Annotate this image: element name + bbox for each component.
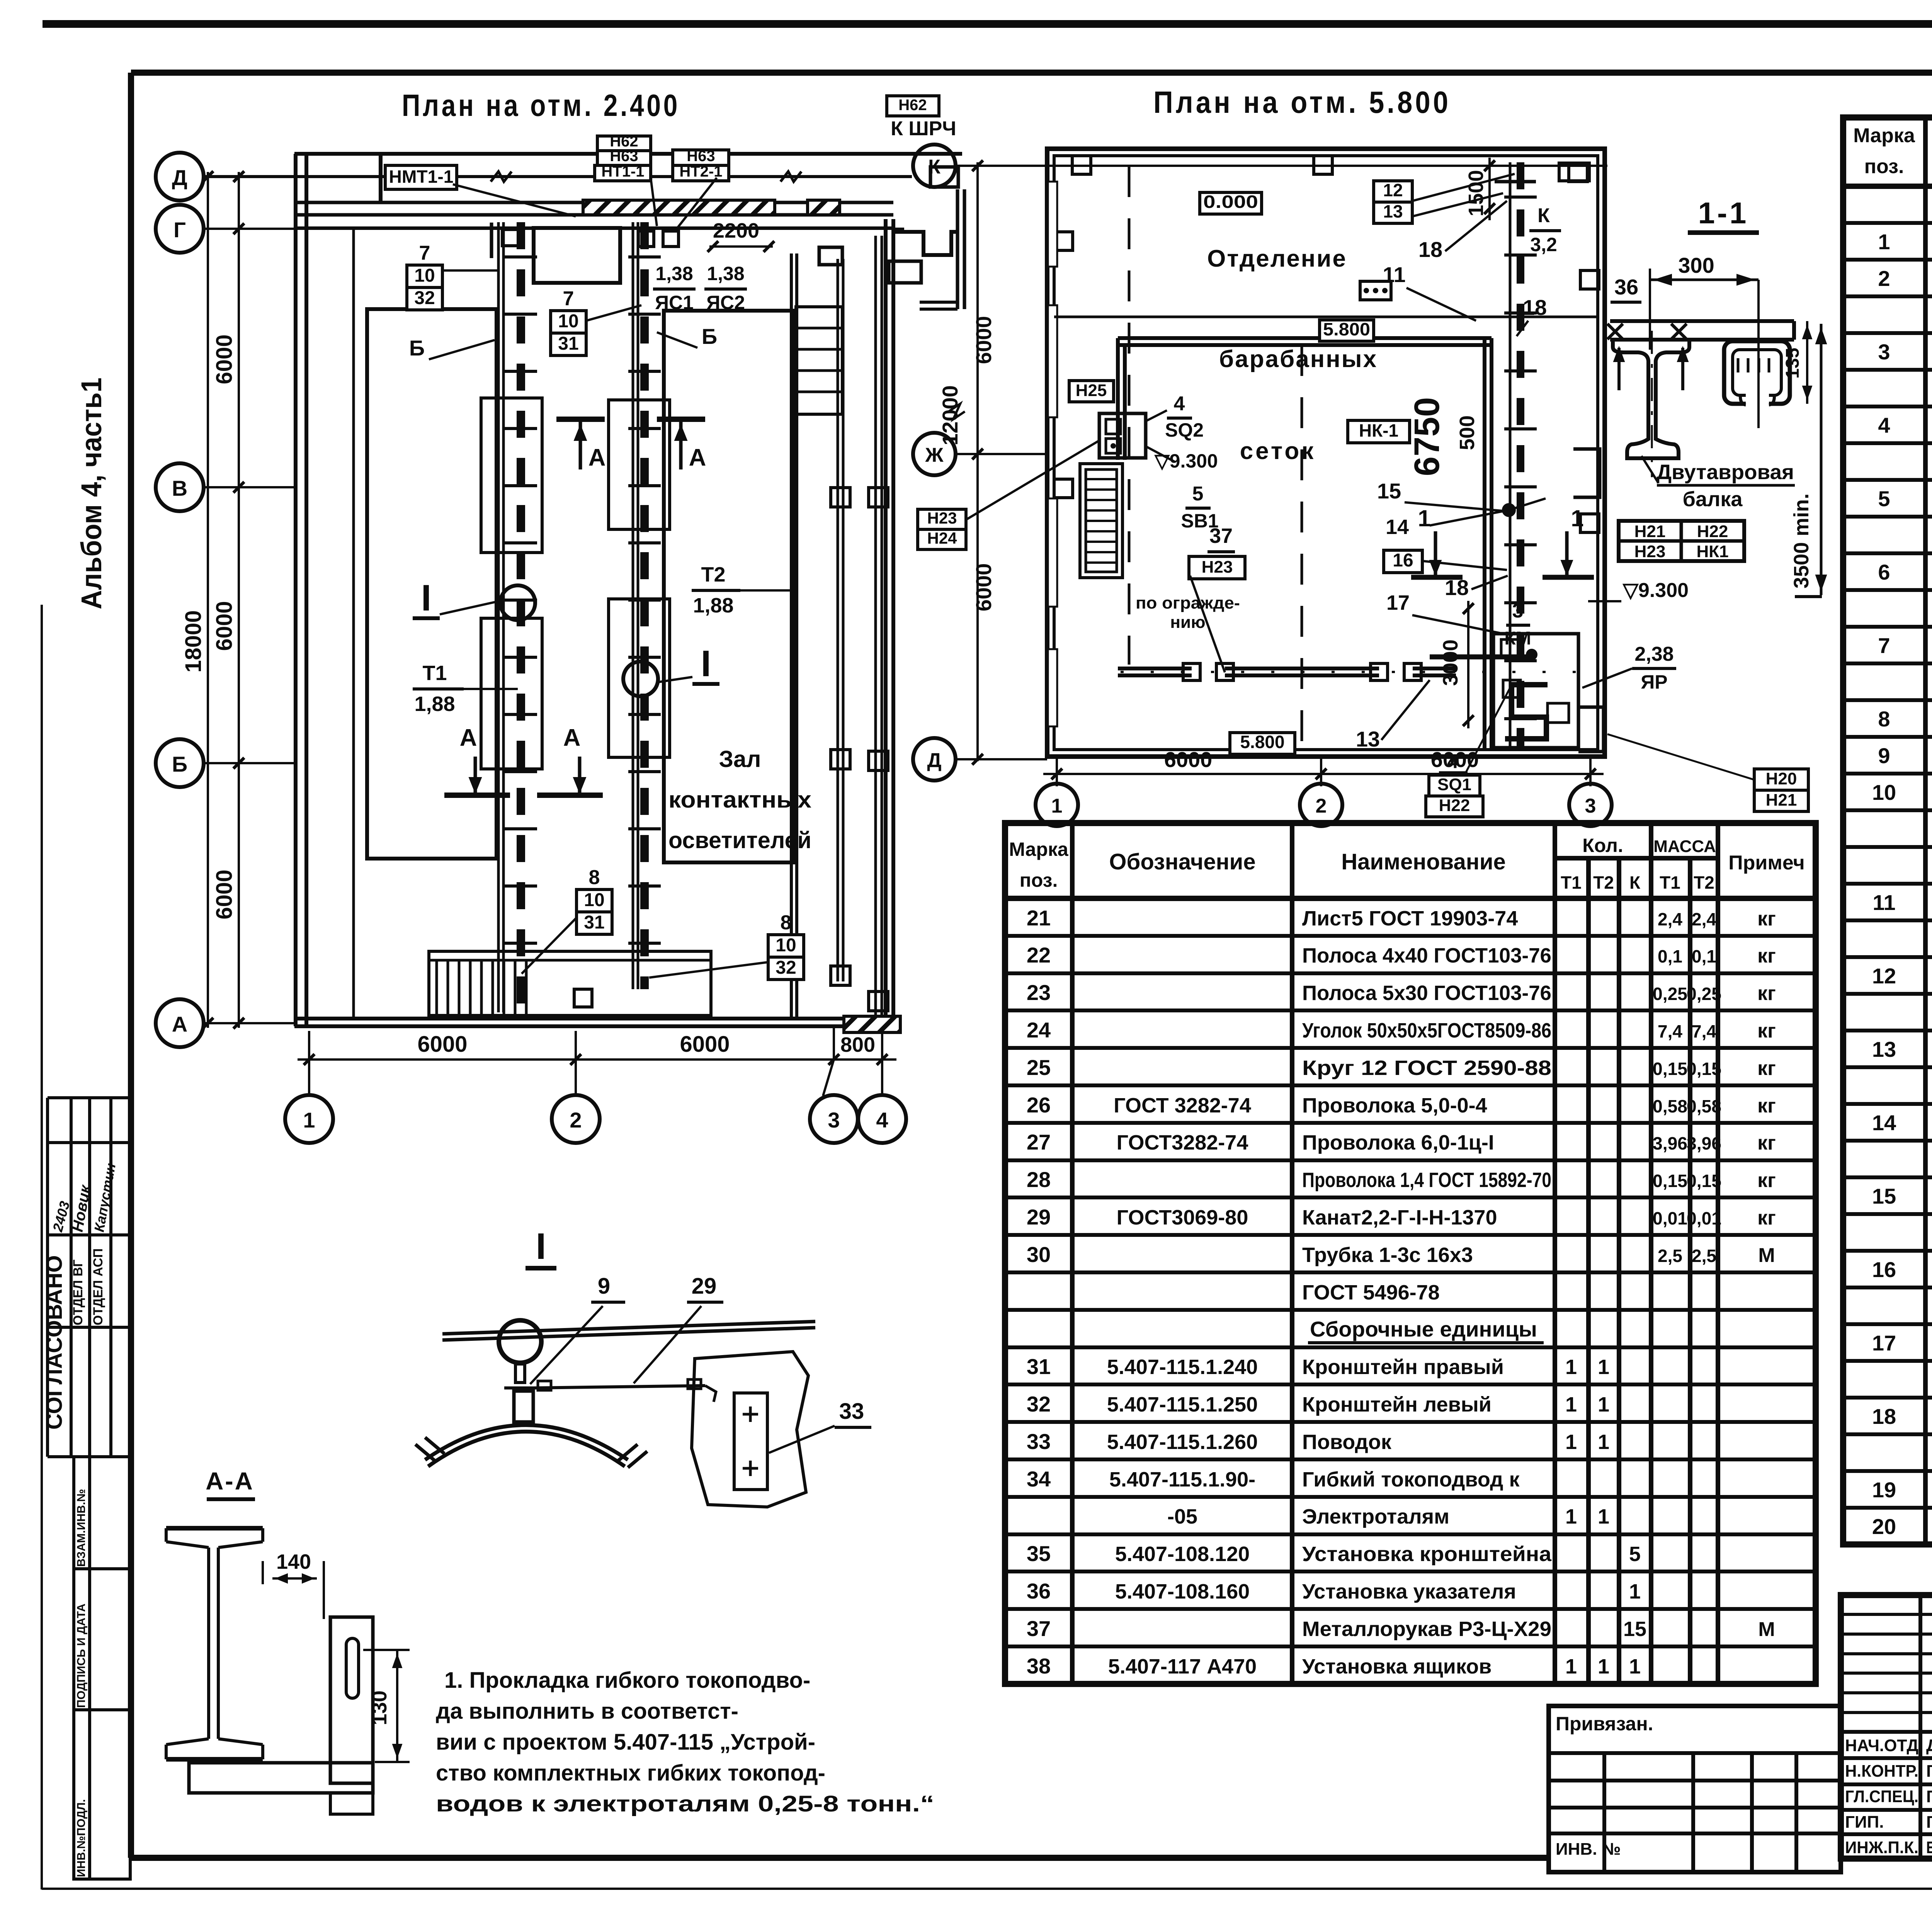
svg-text:0.000: 0.000	[1203, 192, 1258, 212]
svg-text:ДАНИЛОВ: ДАНИЛОВ	[1926, 1736, 1932, 1755]
svg-text:6000: 6000	[680, 1032, 730, 1057]
svg-text:ЯР: ЯР	[1641, 671, 1667, 693]
svg-text:-05: -05	[1167, 1505, 1197, 1528]
svg-text:34: 34	[1027, 1467, 1051, 1491]
svg-text:осветителей: осветителей	[668, 827, 811, 853]
svg-text:17: 17	[1386, 591, 1410, 614]
svg-text:А: А	[172, 1012, 187, 1036]
svg-text:1: 1	[1598, 1505, 1609, 1528]
svg-text:18000: 18000	[181, 610, 206, 672]
svg-text:2,38: 2,38	[1634, 643, 1673, 665]
svg-text:1,88: 1,88	[414, 692, 455, 716]
svg-text:15: 15	[1377, 479, 1401, 503]
svg-text:13: 13	[1872, 1037, 1896, 1061]
svg-text:А: А	[588, 444, 606, 471]
svg-text:15: 15	[1872, 1184, 1896, 1208]
svg-text:800: 800	[840, 1033, 875, 1056]
svg-text:контактных: контактных	[668, 787, 811, 813]
svg-text:Кол.: Кол.	[1582, 835, 1623, 856]
svg-text:6000: 6000	[212, 601, 237, 651]
svg-text:ОТДЕЛ АСП: ОТДЕЛ АСП	[91, 1248, 105, 1325]
svg-text:Двутавровая: Двутавровая	[1656, 461, 1794, 484]
svg-text:ВЗАМ.ИНВ.№: ВЗАМ.ИНВ.№	[75, 1489, 88, 1567]
svg-text:1: 1	[1565, 1355, 1577, 1379]
svg-text:33: 33	[1027, 1429, 1051, 1454]
svg-text:16: 16	[1393, 550, 1413, 571]
svg-text:ГИП.: ГИП.	[1845, 1813, 1884, 1832]
svg-text:18: 18	[1418, 237, 1442, 262]
svg-text:Б: Б	[172, 752, 187, 776]
svg-text:МАССА: МАССА	[1653, 837, 1716, 856]
svg-text:37: 37	[1209, 524, 1233, 548]
svg-text:вии с проектом 5.407-115 „Ус: вии с проектом 5.407-115 „Устрой-	[436, 1730, 815, 1755]
svg-text:Поводок: Поводок	[1302, 1430, 1392, 1454]
svg-text:5.407-108.120: 5.407-108.120	[1115, 1543, 1250, 1566]
svg-text:31: 31	[584, 912, 604, 933]
svg-text:М: М	[1758, 1244, 1775, 1267]
svg-text:23: 23	[1027, 980, 1051, 1005]
svg-text:2: 2	[1316, 795, 1327, 817]
svg-text:Н63: Н63	[687, 148, 715, 165]
svg-text:25: 25	[1027, 1055, 1051, 1080]
svg-text:▽9.300: ▽9.300	[1154, 450, 1218, 472]
svg-text:5.407-115.1.250: 5.407-115.1.250	[1107, 1393, 1258, 1416]
svg-text:НМТ1-1: НМТ1-1	[389, 167, 454, 187]
svg-text:130: 130	[368, 1690, 391, 1725]
svg-text:Н23: Н23	[1202, 558, 1233, 577]
svg-text:13: 13	[1356, 727, 1380, 751]
svg-text:Установка кронштейна: Установка кронштейна	[1302, 1543, 1552, 1566]
svg-text:Полоса 4х40 ГОСТ103-76: Полоса 4х40 ГОСТ103-76	[1302, 944, 1551, 967]
svg-text:13: 13	[1383, 201, 1403, 221]
svg-text:Т1: Т1	[1660, 872, 1680, 893]
svg-text:А: А	[460, 724, 477, 751]
svg-text:19: 19	[1872, 1478, 1896, 1502]
svg-text:кг: кг	[1757, 1207, 1776, 1229]
svg-text:Т2: Т2	[701, 563, 725, 586]
svg-text:4: 4	[1447, 750, 1459, 773]
svg-text:Сборочные единицы: Сборочные единицы	[1310, 1317, 1537, 1341]
svg-text:0,25: 0,25	[1687, 984, 1721, 1004]
svg-text:кг: кг	[1757, 945, 1776, 967]
svg-text:5: 5	[1878, 486, 1890, 511]
svg-text:ПОДПИСЬ И ДАТА: ПОДПИСЬ И ДАТА	[75, 1604, 88, 1708]
svg-text:0,58: 0,58	[1653, 1096, 1687, 1116]
svg-text:Обозначение: Обозначение	[1109, 849, 1255, 874]
svg-text:Примеч: Примеч	[1728, 852, 1804, 874]
svg-text:Проволока 6,0-1ц-I: Проволока 6,0-1ц-I	[1302, 1131, 1494, 1154]
svg-text:36: 36	[1614, 275, 1638, 299]
svg-text:1,38: 1,38	[707, 263, 744, 284]
svg-text:Н21: Н21	[1766, 791, 1797, 810]
svg-text:ГОСТ3282-74: ГОСТ3282-74	[1117, 1131, 1248, 1154]
svg-text:14: 14	[1872, 1111, 1896, 1135]
svg-text:1: 1	[1565, 1393, 1577, 1416]
svg-text:7: 7	[563, 287, 574, 310]
svg-text:0,01: 0,01	[1653, 1208, 1687, 1228]
svg-text:12: 12	[1872, 964, 1896, 988]
svg-text:ГУСЕВА: ГУСЕВА	[1926, 1813, 1932, 1832]
svg-text:НК1: НК1	[1696, 542, 1728, 561]
svg-text:11: 11	[1383, 262, 1405, 287]
svg-text:32: 32	[776, 957, 796, 978]
svg-text:Металлорукав Р3-Ц-Х29: Металлорукав Р3-Ц-Х29	[1302, 1617, 1551, 1641]
svg-text:поз.: поз.	[1864, 155, 1904, 178]
svg-text:10: 10	[414, 265, 435, 286]
svg-text:М: М	[1758, 1618, 1775, 1641]
svg-text:▽9.300: ▽9.300	[1622, 579, 1689, 602]
svg-text:3,2: 3,2	[1530, 234, 1557, 255]
svg-text:Кронштейн правый: Кронштейн правый	[1302, 1355, 1504, 1379]
svg-text:22: 22	[1027, 943, 1051, 967]
svg-text:Н63: Н63	[610, 148, 638, 165]
svg-text:кг: кг	[1757, 1169, 1776, 1192]
svg-text:сеток: сеток	[1240, 438, 1316, 464]
svg-text:ИНЖ.П.К.: ИНЖ.П.К.	[1845, 1838, 1918, 1857]
svg-text:ство комплектных гибких ток: ство комплектных гибких токопод-	[436, 1760, 825, 1786]
svg-text:3: 3	[1878, 340, 1890, 364]
svg-text:1,38: 1,38	[655, 263, 693, 284]
svg-text:ГОСТ 3282-74: ГОСТ 3282-74	[1114, 1094, 1251, 1117]
svg-text:1: 1	[1051, 795, 1063, 817]
svg-text:6000: 6000	[212, 869, 237, 919]
svg-text:5.800: 5.800	[1240, 732, 1284, 752]
svg-text:1: 1	[1598, 1393, 1609, 1416]
svg-text:24: 24	[1027, 1018, 1051, 1042]
svg-text:К: К	[928, 156, 940, 178]
svg-text:5.407-115.1.260: 5.407-115.1.260	[1107, 1430, 1258, 1454]
svg-text:7,4: 7,4	[1658, 1021, 1682, 1041]
svg-text:31: 31	[558, 333, 578, 354]
svg-text:ЕЛИЗАРОВА: ЕЛИЗАРОВА	[1926, 1838, 1932, 1857]
svg-text:3: 3	[1585, 795, 1596, 817]
svg-text:2: 2	[570, 1108, 582, 1132]
svg-text:6000: 6000	[212, 334, 237, 384]
svg-text:140: 140	[276, 1550, 311, 1573]
svg-text:2: 2	[1878, 266, 1890, 291]
svg-text:по ограждe-: по ограждe-	[1136, 594, 1240, 612]
svg-text:Н21: Н21	[1634, 522, 1666, 541]
svg-text:5.407-115.1.240: 5.407-115.1.240	[1107, 1355, 1258, 1379]
svg-text:21: 21	[1027, 906, 1051, 930]
svg-text:36: 36	[1027, 1579, 1051, 1603]
svg-text:I: I	[701, 643, 711, 684]
svg-text:НТ1-1: НТ1-1	[601, 163, 644, 180]
svg-text:балка: балка	[1683, 488, 1743, 511]
svg-text:НАЧ.ОТД: НАЧ.ОТД	[1845, 1736, 1918, 1755]
svg-text:32: 32	[1027, 1392, 1051, 1416]
svg-text:0,01: 0,01	[1687, 1208, 1721, 1228]
svg-text:1,88: 1,88	[693, 594, 733, 617]
svg-text:7,4: 7,4	[1692, 1021, 1716, 1041]
svg-text:Г: Г	[173, 218, 186, 242]
svg-text:5.407-108.160: 5.407-108.160	[1115, 1580, 1250, 1603]
svg-text:7: 7	[1878, 633, 1890, 658]
svg-text:Н25: Н25	[1076, 381, 1107, 400]
svg-text:0,15: 0,15	[1687, 1059, 1721, 1079]
svg-text:3,96: 3,96	[1687, 1133, 1721, 1153]
svg-text:Электроталям: Электроталям	[1302, 1505, 1449, 1528]
svg-text:ИНВ.№ПОДЛ.: ИНВ.№ПОДЛ.	[75, 1799, 88, 1877]
svg-text:Кронштейн левый: Кронштейн левый	[1302, 1393, 1492, 1416]
svg-text:5.800: 5.800	[1323, 319, 1370, 339]
svg-text:Наименование: Наименование	[1341, 849, 1506, 874]
svg-text:кг: кг	[1757, 1132, 1776, 1154]
svg-text:Н23: Н23	[1634, 542, 1666, 561]
svg-text:ЯС2: ЯС2	[706, 292, 745, 313]
svg-text:А: А	[563, 724, 581, 751]
svg-text:28: 28	[1027, 1167, 1051, 1192]
svg-text:Проволока 5,0-0-4: Проволока 5,0-0-4	[1302, 1094, 1487, 1117]
svg-text:2,4: 2,4	[1658, 909, 1682, 929]
svg-text:Установка указателя: Установка указателя	[1302, 1580, 1516, 1603]
svg-text:3,96: 3,96	[1653, 1133, 1687, 1153]
svg-text:Д: Д	[172, 165, 187, 190]
svg-text:1: 1	[1629, 1580, 1641, 1603]
svg-text:ИНВ. №: ИНВ. №	[1556, 1840, 1621, 1859]
svg-text:12: 12	[1383, 180, 1403, 200]
svg-text:План на отм. 2.400: План на отм. 2.400	[402, 88, 680, 122]
svg-text:0,58: 0,58	[1687, 1096, 1721, 1116]
svg-text:да выполнить в соответст: да выполнить в соответст-	[436, 1699, 738, 1724]
svg-text:0,15: 0,15	[1653, 1059, 1687, 1079]
svg-text:Д: Д	[927, 749, 941, 772]
svg-text:500: 500	[1456, 415, 1479, 450]
svg-text:1. Прокладка гибкого токопо: 1. Прокладка гибкого токоподво-	[444, 1668, 810, 1693]
svg-text:НК-1: НК-1	[1359, 420, 1398, 440]
svg-text:1500: 1500	[1464, 170, 1488, 216]
svg-text:26: 26	[1027, 1093, 1051, 1117]
svg-text:К: К	[1629, 872, 1641, 893]
svg-text:10: 10	[558, 311, 578, 332]
svg-text:18: 18	[1872, 1404, 1896, 1429]
svg-text:1: 1	[1629, 1655, 1641, 1678]
svg-text:11: 11	[1872, 890, 1895, 915]
svg-text:18: 18	[1523, 295, 1547, 320]
svg-text:нию: нию	[1170, 613, 1205, 632]
svg-text:6: 6	[1878, 560, 1890, 584]
svg-text:I: I	[536, 1226, 546, 1267]
svg-text:15: 15	[1623, 1617, 1646, 1641]
svg-text:17: 17	[1872, 1331, 1896, 1355]
svg-text:Н20: Н20	[1766, 769, 1797, 788]
svg-text:10: 10	[776, 935, 796, 956]
svg-text:Т2: Т2	[1593, 872, 1614, 893]
svg-text:0,25: 0,25	[1653, 984, 1687, 1004]
svg-text:35: 35	[1027, 1541, 1051, 1566]
svg-text:Марка: Марка	[1853, 124, 1915, 147]
svg-text:Лист5 ГОСТ 19903-74: Лист5 ГОСТ 19903-74	[1302, 907, 1518, 930]
svg-text:Уголок 50х50х5ГОСТ8509-86: Уголок 50х50х5ГОСТ8509-86	[1302, 1019, 1551, 1042]
svg-text:водов к электроталям 0,25-8: водов к электроталям 0,25-8 тонн.“	[436, 1791, 934, 1816]
svg-text:29: 29	[692, 1274, 717, 1299]
svg-text:Проволока 1,4 ГОСТ 15892-70: Проволока 1,4 ГОСТ 15892-70	[1302, 1168, 1551, 1192]
svg-text:2,4: 2,4	[1692, 909, 1716, 929]
svg-text:4: 4	[1174, 393, 1185, 415]
svg-text:5: 5	[1629, 1543, 1641, 1566]
svg-text:ЯС1: ЯС1	[655, 292, 694, 313]
svg-text:29: 29	[1027, 1205, 1051, 1229]
svg-text:барабанных: барабанных	[1219, 346, 1378, 372]
svg-text:30: 30	[1027, 1242, 1051, 1267]
svg-text:1-1: 1-1	[1698, 196, 1749, 230]
svg-text:1: 1	[1878, 230, 1890, 254]
svg-text:ГЛ.СПЕЦ.: ГЛ.СПЕЦ.	[1845, 1787, 1918, 1806]
svg-text:31: 31	[1027, 1354, 1051, 1379]
svg-text:300: 300	[1678, 253, 1714, 277]
svg-text:3: 3	[1512, 600, 1524, 622]
svg-text:6000: 6000	[971, 316, 996, 364]
svg-text:КМ: КМ	[1504, 628, 1531, 649]
svg-text:8: 8	[1878, 707, 1890, 731]
svg-text:Полоса 5х30 ГОСТ103-76: Полоса 5х30 ГОСТ103-76	[1302, 981, 1551, 1005]
svg-text:5.407-117 А470: 5.407-117 А470	[1108, 1655, 1257, 1678]
svg-text:ГУСЕВА: ГУСЕВА	[1926, 1762, 1932, 1781]
svg-text:8: 8	[589, 866, 600, 889]
svg-text:4: 4	[1878, 413, 1890, 437]
svg-text:0,15: 0,15	[1687, 1171, 1721, 1191]
svg-text:38: 38	[1027, 1654, 1051, 1678]
svg-text:ОТДЕЛ ВГ: ОТДЕЛ ВГ	[71, 1260, 85, 1325]
svg-text:1: 1	[1565, 1655, 1577, 1678]
svg-text:СОГЛАСОВАНО: СОГЛАСОВАНО	[42, 1255, 67, 1430]
svg-text:Т2: Т2	[1694, 872, 1714, 893]
svg-text:Альбом 4, часть1: Альбом 4, часть1	[75, 378, 107, 609]
svg-text:I: I	[421, 577, 432, 619]
svg-text:4: 4	[876, 1108, 888, 1132]
svg-text:Ж: Ж	[925, 444, 944, 466]
svg-text:Т1: Т1	[422, 662, 447, 685]
svg-text:20: 20	[1872, 1514, 1896, 1539]
svg-text:кг: кг	[1757, 1057, 1776, 1080]
svg-text:А-А: А-А	[206, 1467, 254, 1495]
svg-text:27: 27	[1027, 1130, 1051, 1154]
svg-text:Отделение: Отделение	[1207, 245, 1347, 272]
svg-text:1: 1	[1565, 1430, 1577, 1454]
svg-text:2,5: 2,5	[1692, 1246, 1716, 1266]
svg-text:2,5: 2,5	[1658, 1246, 1682, 1266]
svg-text:кг: кг	[1757, 908, 1776, 930]
svg-text:3: 3	[828, 1108, 840, 1132]
svg-text:SQ2: SQ2	[1165, 419, 1204, 441]
svg-text:8: 8	[781, 912, 792, 934]
svg-text:кг: кг	[1757, 982, 1776, 1005]
svg-text:Гибкий токоподвод к: Гибкий токоподвод к	[1302, 1468, 1520, 1491]
svg-text:кг: кг	[1757, 1020, 1776, 1042]
svg-text:SQ1: SQ1	[1437, 775, 1471, 794]
svg-text:Б: Б	[702, 324, 717, 349]
svg-text:Зал: Зал	[719, 746, 761, 772]
svg-text:1: 1	[1565, 1505, 1577, 1528]
svg-text:ГОСТ 5496-78: ГОСТ 5496-78	[1302, 1281, 1440, 1304]
svg-text:поз.: поз.	[1020, 869, 1058, 891]
svg-text:9: 9	[598, 1274, 610, 1299]
svg-text:1: 1	[1598, 1355, 1609, 1379]
svg-text:Б: Б	[409, 336, 425, 360]
svg-text:Привязан.: Привязан.	[1556, 1713, 1653, 1735]
svg-text:37: 37	[1027, 1616, 1051, 1641]
svg-text:К: К	[1537, 204, 1550, 227]
svg-text:1: 1	[1598, 1430, 1609, 1454]
svg-text:0,15: 0,15	[1653, 1171, 1687, 1191]
svg-text:6750: 6750	[1407, 397, 1447, 476]
svg-text:7: 7	[419, 242, 430, 264]
svg-text:В: В	[172, 476, 187, 500]
svg-text:Установка ящиков: Установка ящиков	[1302, 1655, 1492, 1678]
svg-text:5: 5	[1192, 483, 1204, 505]
svg-text:Н23: Н23	[927, 509, 957, 527]
svg-text:К ШРЧ: К ШРЧ	[891, 117, 956, 140]
svg-text:33: 33	[839, 1399, 864, 1424]
svg-text:5.407-115.1.90-: 5.407-115.1.90-	[1109, 1468, 1255, 1491]
svg-text:1: 1	[303, 1108, 315, 1132]
svg-text:135: 135	[1782, 348, 1803, 379]
svg-text:Канат2,2-Г-I-Н-1370: Канат2,2-Г-I-Н-1370	[1302, 1206, 1497, 1229]
svg-text:3000: 3000	[1439, 639, 1462, 686]
svg-text:10: 10	[584, 890, 604, 910]
svg-text:3500 min.: 3500 min.	[1790, 493, 1813, 588]
svg-text:10: 10	[1872, 780, 1896, 804]
svg-text:0,1: 0,1	[1658, 946, 1682, 966]
svg-text:Н22: Н22	[1439, 796, 1470, 815]
svg-text:Марка: Марка	[1009, 838, 1069, 860]
svg-text:1: 1	[1571, 505, 1583, 531]
svg-text:2200: 2200	[713, 219, 759, 242]
svg-text:Т1: Т1	[1561, 872, 1582, 893]
svg-text:14: 14	[1386, 515, 1409, 539]
svg-text:Н.КОНТР.: Н.КОНТР.	[1845, 1762, 1918, 1781]
svg-text:0,1: 0,1	[1692, 946, 1716, 966]
svg-text:А: А	[689, 444, 706, 471]
svg-text:6000: 6000	[971, 563, 996, 612]
svg-text:Круг 12 ГОСТ 2590-88: Круг 12 ГОСТ 2590-88	[1302, 1056, 1551, 1080]
svg-text:32: 32	[414, 288, 435, 308]
svg-text:9: 9	[1878, 743, 1890, 768]
svg-text:ГОСТ3069-80: ГОСТ3069-80	[1117, 1206, 1248, 1229]
svg-text:6000: 6000	[417, 1032, 467, 1057]
svg-text:16: 16	[1872, 1257, 1896, 1282]
svg-text:1: 1	[1418, 505, 1430, 531]
svg-text:кг: кг	[1757, 1095, 1776, 1117]
svg-text:Н62: Н62	[898, 97, 927, 114]
svg-text:Н22: Н22	[1697, 522, 1728, 541]
svg-text:1: 1	[1598, 1655, 1609, 1678]
svg-text:ГОЛЬЦМАН: ГОЛЬЦМАН	[1926, 1787, 1932, 1806]
svg-text:Трубка 1-3с 16х3: Трубка 1-3с 16х3	[1302, 1243, 1473, 1267]
svg-text:Н24: Н24	[927, 529, 957, 547]
svg-text:План на отм. 5.800: План на отм. 5.800	[1153, 85, 1451, 119]
